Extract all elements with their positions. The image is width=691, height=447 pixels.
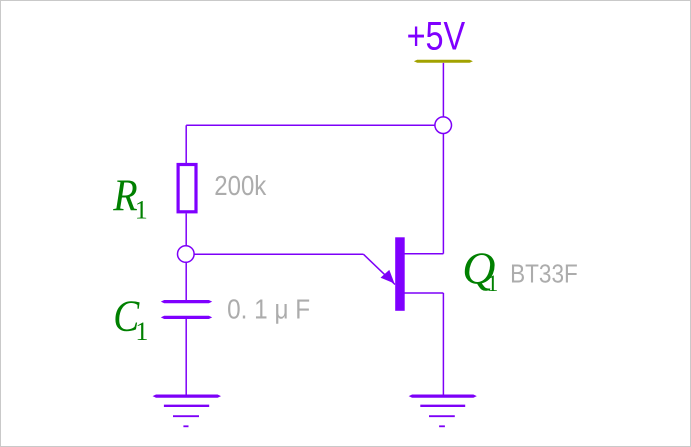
ground (left, under C1) <box>153 395 221 427</box>
svg-text:BT33F: BT33F <box>510 259 578 289</box>
wire node A to top of R1 (horizontal) <box>186 124 435 126</box>
capacitor C1 bottom plate <box>161 316 212 319</box>
node A (junction circle at +5V rail) <box>435 117 452 134</box>
svg-text:+5V: +5V <box>407 14 466 58</box>
wire C1 down to ground <box>185 319 187 395</box>
wire R1 to node B <box>185 213 187 246</box>
transistor Q1 base bar <box>395 237 405 310</box>
transistor Q1 B1 lead <box>404 292 443 294</box>
svg-text:0. 1 μ F: 0. 1 μ F <box>227 294 310 325</box>
svg-text:1: 1 <box>135 196 148 225</box>
wire power bar to node A <box>442 63 444 117</box>
power bar symbol <box>414 60 473 63</box>
svg-text:200k: 200k <box>214 170 266 201</box>
wire node A down to B2 lead <box>442 134 444 254</box>
wire B1 lead down to ground <box>442 293 444 395</box>
capacitor C1 top plate <box>161 300 212 303</box>
wire <box>185 125 187 163</box>
transistor Q1 emitter arrowhead <box>381 270 395 284</box>
svg-text:1: 1 <box>135 317 148 346</box>
wire node B to emitter of Q1 <box>194 253 363 255</box>
ground (right, under Q1) <box>409 395 477 427</box>
wire node B down to C1 <box>185 262 187 300</box>
resistor R1 body <box>178 165 196 212</box>
node B (junction circle R1/C1/emitter) <box>178 246 195 263</box>
svg-text:1: 1 <box>487 271 499 296</box>
transistor Q1 emitter diagonal <box>364 254 396 284</box>
transistor Q1 B2 lead <box>404 253 443 255</box>
